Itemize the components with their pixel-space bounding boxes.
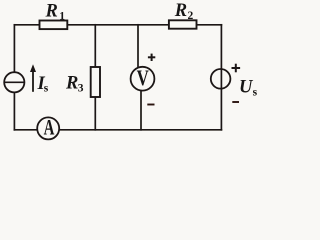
svg-text:R: R [65, 74, 78, 94]
svg-text:s: s [44, 83, 49, 95]
wire top-middle segment (R1 to R2) [67, 24, 169, 26]
wire top-right segment (R2 to right corner) [196, 24, 221, 26]
current arrow Is [32, 70, 34, 92]
wire right branch (through voltage source) [220, 25, 222, 130]
wire bottom-left segment (corner to ammeter) [14, 129, 37, 131]
svg-text:R: R [45, 1, 58, 21]
wire voltmeter branch lower [140, 90, 142, 129]
resistor R1 [40, 21, 68, 30]
minus sign (voltmeter) [147, 104, 154, 106]
wire bottom segment (ammeter to bottom-right corner) [59, 129, 221, 131]
wire R3 branch upper [94, 25, 96, 67]
wire left branch lower (current source to bottom corner) [13, 92, 15, 129]
wire top-left segment [14, 24, 40, 26]
resistor R3 [91, 67, 100, 97]
ammeter A [37, 117, 59, 139]
svg-text:V: V [137, 65, 149, 90]
svg-text:R: R [174, 1, 187, 21]
plus sign (voltage source) [232, 64, 241, 73]
plus sign (voltmeter) [148, 54, 155, 61]
current source Is (circle with horizontal bar) [4, 72, 24, 92]
wire voltmeter branch upper [137, 25, 139, 68]
voltmeter V [131, 67, 155, 91]
wire left branch upper (corner to current source) [13, 25, 15, 73]
wire R3 branch lower [94, 97, 96, 130]
svg-text:s: s [253, 86, 258, 98]
svg-text:2: 2 [188, 10, 194, 22]
svg-text:3: 3 [78, 83, 84, 95]
svg-text:A: A [44, 115, 55, 140]
resistor R2 [169, 20, 197, 28]
minus sign (voltage source) [232, 101, 239, 103]
svg-text:1: 1 [59, 10, 65, 22]
voltage source Us (circle, wire passes through) [211, 69, 231, 89]
